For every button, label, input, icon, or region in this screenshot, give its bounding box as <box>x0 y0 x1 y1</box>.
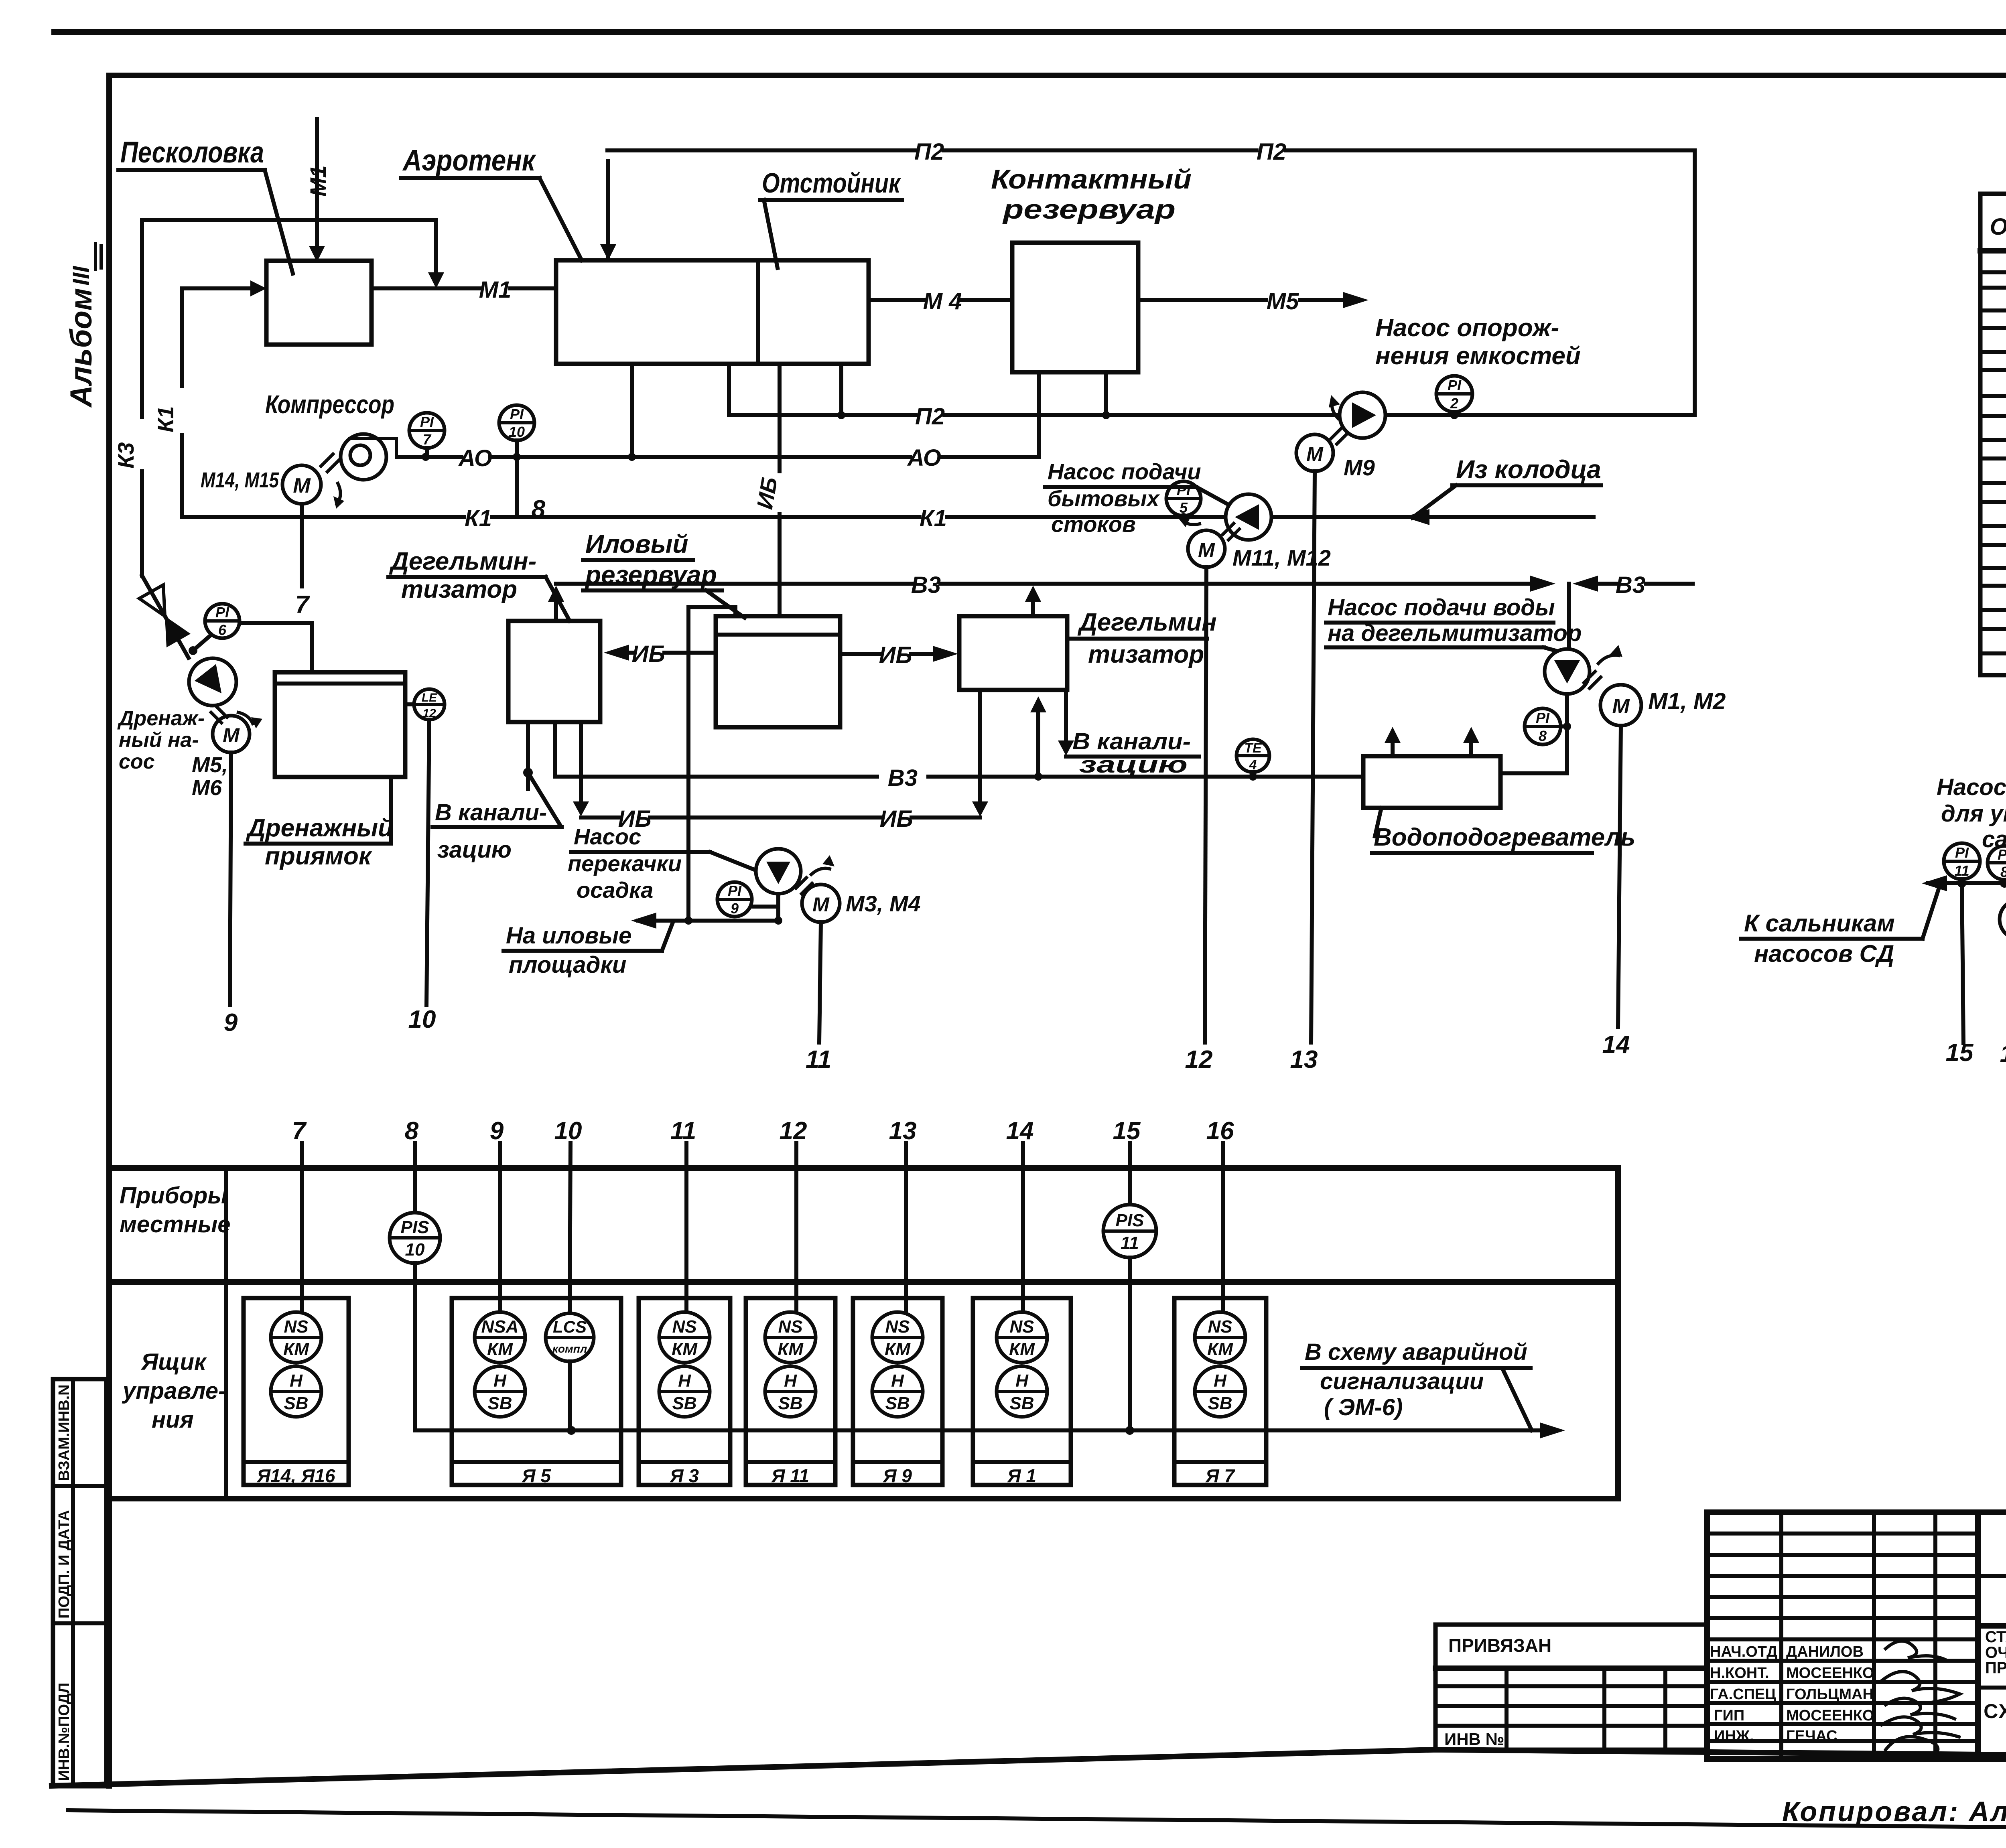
svg-text:9: 9 <box>731 900 739 917</box>
svg-text:АО: АО <box>907 445 941 471</box>
svg-text:Насос подачи воды: Насос подачи воды <box>1328 594 1555 621</box>
svg-text:М1: М1 <box>305 165 331 197</box>
drainage sump box (Дренажный приямок) <box>275 672 405 777</box>
legend row ИБ <box>1982 471 2006 496</box>
wire В3 arrow up from deworm tank 2 <box>1025 586 1041 616</box>
control box Я14,Я16 <box>244 1298 349 1486</box>
label Иловый резервуар <box>583 529 745 618</box>
control box Я5 <box>452 1298 621 1486</box>
svg-text:М1: М1 <box>479 277 512 303</box>
svg-text:компл: компл <box>552 1343 587 1355</box>
wire А1 air drop to aerotank <box>630 364 634 457</box>
instrument ТЕ-4 <box>1236 739 1269 781</box>
note В схему аварийной сигнализации (ЭМ-6) <box>1302 1339 1532 1430</box>
svg-text:КМ: КМ <box>1009 1339 1035 1359</box>
title block texts <box>1984 1533 2006 1757</box>
svg-text:КМ: КМ <box>487 1339 513 1359</box>
svg-text:КМ: КМ <box>778 1339 804 1359</box>
svg-text:М5: М5 <box>1267 288 1299 314</box>
svg-text:6: 6 <box>218 622 227 638</box>
band drop line 13 <box>889 1117 917 1312</box>
svg-text:8: 8 <box>2000 864 2006 880</box>
instrument PI-9 <box>717 882 778 917</box>
svg-text:Аэротенк: Аэротенк <box>402 144 536 177</box>
svg-text:12: 12 <box>780 1117 807 1145</box>
wire П2 collector under settler <box>729 364 1695 430</box>
control box Я7 <box>1174 1298 1266 1486</box>
привязан table <box>1435 1625 1707 1750</box>
label Дегельмин тизатор 2 <box>1067 609 1217 668</box>
label Насос перекачки осадка <box>568 824 758 903</box>
svg-text:SB: SB <box>284 1394 308 1413</box>
svg-text:III: III <box>68 266 94 286</box>
wire М4 settler to contact tank <box>869 288 1012 314</box>
svg-text:Дегельмин-: Дегельмин- <box>389 548 536 575</box>
svg-text:М: М <box>812 893 830 916</box>
sheet outer top edge line <box>54 29 2006 35</box>
svg-text:SB: SB <box>672 1394 696 1413</box>
svg-text:В3: В3 <box>888 765 918 791</box>
svg-text:сос: сос <box>119 750 155 773</box>
svg-text:SB: SB <box>1208 1394 1232 1413</box>
label Насос подачи бытовых стоков <box>1045 459 1228 537</box>
svg-text:Н: Н <box>493 1371 507 1391</box>
svg-text:КМ: КМ <box>1207 1339 1233 1359</box>
control box Я3 <box>639 1298 730 1486</box>
svg-text:8: 8 <box>1539 728 1547 744</box>
compressor unit М14 М15 <box>282 434 396 509</box>
svg-text:ПРИВЯЗАН: ПРИВЯЗАН <box>1448 1635 1551 1656</box>
svg-text:ИНВ №: ИНВ № <box>1444 1730 1504 1749</box>
sheet outer bottom edge line <box>68 1810 2006 1832</box>
svg-text:7: 7 <box>292 1117 307 1145</box>
band drop line 11 <box>670 1117 696 1312</box>
svg-text:П2: П2 <box>914 139 944 165</box>
svg-text:Дегельмин: Дегельмин <box>1077 609 1217 636</box>
svg-text:Контактный: Контактный <box>991 164 1192 195</box>
instrument PI-2 <box>1436 376 1472 419</box>
svg-text:Я 9: Я 9 <box>883 1465 912 1486</box>
wire К3 left riser <box>113 220 189 658</box>
wire 15 drop <box>1946 883 1974 1067</box>
svg-text:Иловый: Иловый <box>585 529 688 558</box>
wire 12 drop <box>1185 567 1213 1073</box>
svg-text:PIS: PIS <box>1116 1211 1144 1230</box>
svg-text:местные: местные <box>120 1211 231 1237</box>
wire В3 feed up into deworm tank 2 bottom <box>1030 696 1046 777</box>
svg-text:Я 1: Я 1 <box>1007 1465 1036 1486</box>
band drop line 12 <box>780 1117 807 1312</box>
wire pump discharge to water heater <box>1500 694 1567 773</box>
label В канализацию left <box>432 799 562 863</box>
control box Я1 <box>973 1298 1071 1486</box>
sludge reservoir box (Иловый резервуар) <box>716 616 840 727</box>
band drop line 15 with PIS-11 <box>1103 1117 1156 1430</box>
legend table "Условные обозначения" <box>1980 135 2006 675</box>
svg-text:11: 11 <box>1954 862 1969 879</box>
svg-text:управле-: управле- <box>122 1378 226 1404</box>
svg-text:Н: Н <box>678 1371 691 1391</box>
wire 16 drop <box>2000 939 2006 1068</box>
svg-text:11: 11 <box>806 1046 831 1073</box>
svg-text:перекачки: перекачки <box>568 851 682 876</box>
svg-text:стоков: стоков <box>1051 511 1136 537</box>
legend row K1 <box>1982 384 2006 409</box>
label М5 М6 <box>192 753 228 800</box>
instrument PI-6 <box>189 604 240 655</box>
svg-text:ИНВ.№ПОДЛ: ИНВ.№ПОДЛ <box>56 1683 73 1781</box>
wire 14 drop <box>1602 726 1630 1059</box>
svg-text:9: 9 <box>224 1009 238 1037</box>
title block grid <box>1707 1512 2006 1759</box>
svg-text:Н: Н <box>1214 1371 1227 1391</box>
svg-text:сигнализации: сигнализации <box>1320 1368 1484 1394</box>
aeration tank / settler box (Аэротенк + Отстойник) <box>556 260 869 364</box>
svg-text:10: 10 <box>408 1006 436 1033</box>
svg-text:Я 11: Я 11 <box>771 1465 809 1486</box>
frame bottom border <box>52 1750 2006 1786</box>
instrument PI-8 seal water <box>1988 846 2006 880</box>
svg-text:К3: К3 <box>113 442 138 469</box>
svg-text:М9: М9 <box>1344 455 1375 480</box>
legend row K3 <box>1982 428 2006 453</box>
svg-text:ный на-: ный на- <box>119 728 199 752</box>
wire М1 sandtrap to aerotank <box>372 277 556 303</box>
album side label "Альбом III" <box>64 244 101 408</box>
svg-text:PI: PI <box>1536 710 1550 726</box>
wire discharge to sludge beds <box>631 913 782 929</box>
wire 10 drop <box>408 720 436 1033</box>
svg-text:SB: SB <box>885 1394 910 1413</box>
svg-text:11: 11 <box>1121 1233 1139 1253</box>
svg-text:PIS: PIS <box>401 1217 429 1237</box>
alarm signal line to ЭМ-6 <box>415 1422 1565 1438</box>
svg-text:ГЕЧАС: ГЕЧАС <box>1786 1728 1837 1745</box>
label Дренажный приямок <box>246 777 393 870</box>
svg-text:7: 7 <box>423 431 432 448</box>
svg-text:насосов СД: насосов СД <box>1754 940 1894 967</box>
svg-text:ДАНИЛОВ: ДАНИЛОВ <box>1786 1643 1864 1660</box>
svg-text:ПОДП. И ДАТА: ПОДП. И ДАТА <box>56 1510 73 1619</box>
svg-text:М 4: М 4 <box>923 288 962 314</box>
svg-text:LCS: LCS <box>553 1317 587 1336</box>
title block signature rows <box>1710 1641 1960 1760</box>
svg-text:В3: В3 <box>911 572 941 598</box>
svg-text:Из колодца: Из колодца <box>1456 455 1601 484</box>
svg-text:10: 10 <box>509 424 525 440</box>
svg-text:Дренажный: Дренажный <box>246 814 393 842</box>
band drop line 7 <box>292 1117 307 1312</box>
svg-text:резервуар: резервуар <box>1002 194 1176 225</box>
svg-text:зацию: зацию <box>437 837 512 863</box>
pump М11 М12 on К1 <box>1178 494 1271 567</box>
svg-text:МОСЕЕНКО: МОСЕЕНКО <box>1786 1707 1874 1724</box>
svg-text:М14, М15: М14, М15 <box>201 468 279 492</box>
svg-text:П2: П2 <box>1257 139 1286 165</box>
signatures scribble <box>1886 1641 1946 1660</box>
svg-text:NSA: NSA <box>481 1317 519 1337</box>
svg-text:10: 10 <box>405 1240 425 1260</box>
svg-text:2: 2 <box>1450 395 1458 412</box>
svg-text:Н: Н <box>290 1371 303 1391</box>
svg-text:Насос подачи: Насос подачи <box>1048 459 1201 484</box>
svg-text:ИБ: ИБ <box>880 806 913 832</box>
svg-text:нения емкостей: нения емкостей <box>1375 342 1581 370</box>
label Насос подачи воды на дегельмитизатор <box>1326 594 1582 654</box>
wire М1 inlet from top <box>305 119 331 262</box>
svg-text:ГИП: ГИП <box>1714 1707 1744 1724</box>
wire suction from sump <box>240 623 312 672</box>
svg-text:Компрессор: Компрессор <box>265 390 394 419</box>
svg-text:Н.КОНТ.: Н.КОНТ. <box>1710 1665 1769 1682</box>
wire sludge suction from reservoir top <box>688 607 735 921</box>
wire ИБ drop from settler <box>752 364 782 616</box>
band drop line 16 <box>1206 1117 1234 1312</box>
label Аэротенк <box>401 144 582 260</box>
svg-text:Песколовка: Песколовка <box>120 136 264 169</box>
svg-text:ПРОИЗВОДИТЕЛЬНОСТЬЮ: ПРОИЗВОДИТЕЛЬНОСТЬЮ <box>1985 1659 2006 1677</box>
svg-text:М1, М2: М1, М2 <box>1648 688 1726 714</box>
svg-text:Я 3: Я 3 <box>670 1465 699 1486</box>
svg-text:( ЭМ-6): ( ЭМ-6) <box>1324 1394 1403 1420</box>
svg-text:для уплотнения: для уплотнения <box>1941 801 2006 827</box>
svg-text:на дегельмитизатор: на дегельмитизатор <box>1328 620 1582 646</box>
instrument PI-8 <box>1525 708 1571 744</box>
svg-text:М: М <box>1612 695 1630 718</box>
svg-text:ния: ния <box>152 1407 194 1433</box>
wire ИБ sludge reservoir to deworm tank 1 <box>604 641 716 667</box>
svg-text:К1: К1 <box>920 505 947 531</box>
wire В3 arrow up into deworm tank 1 <box>548 586 564 621</box>
legend row M5 <box>1982 340 2006 365</box>
svg-text:На иловые: На иловые <box>506 923 631 949</box>
legend row П2 <box>1982 514 2006 540</box>
legend row M4 <box>1982 298 2006 324</box>
label Насос подачи воды для уплотнения сальников <box>1937 774 2006 852</box>
svg-text:Копировал: Алешикова: Копировал: Алешикова <box>1782 1796 2006 1827</box>
svg-text:М: М <box>1198 539 1215 561</box>
svg-text:SB: SB <box>487 1394 512 1413</box>
svg-text:Приборы: Приборы <box>120 1183 227 1209</box>
svg-text:Насос: Насос <box>574 824 641 849</box>
svg-text:PI: PI <box>728 882 742 899</box>
svg-text:PI: PI <box>1955 844 1969 861</box>
svg-text:14: 14 <box>1006 1117 1034 1145</box>
svg-text:14: 14 <box>1602 1031 1630 1059</box>
legend row А1 <box>1982 598 2006 623</box>
bottom band borders <box>109 1168 1618 1499</box>
control box Я9 <box>853 1298 942 1486</box>
water heater box (Водоподогреватель) <box>1363 727 1500 808</box>
legend row В3 <box>1982 556 2006 581</box>
label В канализацию right <box>1066 728 1199 778</box>
svg-text:М3, М4: М3, М4 <box>846 891 921 916</box>
svg-text:В канали-: В канали- <box>1072 728 1191 755</box>
svg-text:АО: АО <box>458 445 492 471</box>
drainage pump unit М5 М6 <box>139 585 262 753</box>
label Водоподогреватель <box>1372 808 1635 853</box>
svg-text:ИБ: ИБ <box>879 642 912 668</box>
label На иловые площадки <box>504 921 673 978</box>
svg-text:SB: SB <box>778 1394 802 1413</box>
svg-text:Н: Н <box>891 1371 904 1391</box>
wire В3 lower main <box>555 722 1363 791</box>
svg-text:ГА.СПЕЦ: ГА.СПЕЦ <box>1710 1686 1776 1703</box>
svg-text:Обозн: Обозн <box>1990 214 2006 240</box>
svg-text:В3: В3 <box>1616 572 1645 598</box>
svg-text:16: 16 <box>1206 1117 1234 1145</box>
svg-text:М6: М6 <box>192 776 222 800</box>
svg-text:М: М <box>223 724 240 747</box>
instrument PI-11 <box>1944 843 1980 879</box>
svg-text:МОСЕЕНКО: МОСЕЕНКО <box>1786 1665 1874 1682</box>
svg-text:13: 13 <box>1290 1046 1318 1073</box>
wire ИБ sludge reservoir to deworm tank 2 <box>840 642 958 668</box>
svg-text:бытовых: бытовых <box>1048 486 1160 511</box>
svg-text:Ящик: Ящик <box>140 1349 207 1375</box>
label Дренажный насос <box>117 707 205 773</box>
svg-text:11: 11 <box>670 1117 696 1145</box>
instrument PI-7 <box>409 413 445 457</box>
label Из колодца <box>1412 455 1601 518</box>
svg-text:СТАНЦИЯ БИОЛОГИЧЕСКОЙ: СТАНЦИЯ БИОЛОГИЧЕСКОЙ <box>1985 1627 2006 1646</box>
svg-text:К1: К1 <box>465 505 492 531</box>
svg-text:15: 15 <box>1113 1117 1141 1145</box>
svg-text:NS: NS <box>672 1317 696 1337</box>
svg-text:площадки: площадки <box>509 952 626 978</box>
label Насос опорожнения емкостей <box>1375 314 1581 370</box>
svg-text:тизатор: тизатор <box>1088 641 1204 668</box>
control box Я11 <box>746 1298 835 1486</box>
svg-text:8: 8 <box>405 1117 419 1145</box>
svg-text:осадка: осадка <box>577 877 653 903</box>
pump М9 on П2 <box>1296 392 1385 471</box>
svg-text:10: 10 <box>554 1117 582 1145</box>
svg-text:ТЕ: ТЕ <box>1244 740 1262 756</box>
svg-text:зацию: зацию <box>1079 752 1188 778</box>
svg-text:М: М <box>293 474 311 497</box>
wire deworm tank 1 drain with dot <box>523 722 561 826</box>
svg-text:Отстойник: Отстойник <box>762 167 901 199</box>
svg-text:PI: PI <box>1998 846 2006 863</box>
svg-text:PI: PI <box>1448 377 1462 394</box>
svg-text:Насос опорож-: Насос опорож- <box>1375 314 1559 342</box>
wire contact tank drains <box>1039 372 1106 457</box>
svg-text:ГОЛЬЦМАН: ГОЛЬЦМАН <box>1786 1686 1874 1703</box>
svg-text:7: 7 <box>295 591 310 619</box>
deworming tank 2 box (Дегельминтизатор) <box>959 616 1067 690</box>
svg-text:12: 12 <box>1185 1046 1213 1073</box>
valve on К3 slant <box>139 585 165 616</box>
contact reservoir box (Контактный резервуар) <box>1012 243 1138 372</box>
label Дегельмин-тизатор 1 <box>388 548 570 621</box>
pump подачи воды М1 М2 <box>1545 584 1641 726</box>
svg-text:П2: П2 <box>915 404 945 430</box>
band drop line 10 through LCS <box>554 1117 582 1430</box>
svg-text:LE: LE <box>422 691 437 704</box>
svg-text:СХЕМА АВТОМАТИЗАЦИИ: СХЕМА АВТОМАТИЗАЦИИ <box>1984 1700 2006 1722</box>
svg-text:НАЧ.ОТД: НАЧ.ОТД <box>1710 1643 1777 1660</box>
legend row M1 <box>1982 260 2006 286</box>
wire ИБ lower line to pump <box>581 806 980 832</box>
svg-text:К сальникам: К сальникам <box>1744 910 1895 937</box>
seal water pump М7 М8 <box>1922 860 2006 939</box>
svg-text:КМ: КМ <box>672 1339 698 1359</box>
deworming tank 1 box (Дегельминтизатор) <box>508 621 600 722</box>
svg-text:15: 15 <box>1946 1039 1974 1067</box>
svg-text:9: 9 <box>490 1117 504 1145</box>
svg-text:Водоподогреватель: Водоподогреватель <box>1374 824 1635 851</box>
label Отстойник <box>760 167 902 268</box>
sand trap box (Песколовка) <box>266 261 372 345</box>
svg-text:приямок: приямок <box>265 842 372 870</box>
label Песколовка <box>118 136 293 274</box>
band drop line 14 <box>1006 1117 1034 1312</box>
wire В3 upper main <box>556 572 1693 598</box>
svg-text:М: М <box>1306 443 1324 465</box>
wire deworm tank 2 drain to sewer <box>1058 690 1074 756</box>
svg-text:КМ: КМ <box>885 1339 911 1359</box>
svg-text:13: 13 <box>889 1117 917 1145</box>
svg-text:SB: SB <box>1009 1394 1034 1413</box>
svg-text:Я 5: Я 5 <box>522 1465 551 1486</box>
svg-text:16: 16 <box>2000 1040 2006 1068</box>
left margin stamp column boxes <box>53 1379 106 1786</box>
svg-text:PI: PI <box>1177 482 1191 498</box>
label К сальникам насосов СД <box>1741 884 1940 967</box>
svg-text:NS: NS <box>778 1317 802 1337</box>
wire М5 outlet <box>1138 288 1368 314</box>
svg-text:Н: Н <box>1015 1371 1029 1391</box>
svg-text:Я14, Я16: Я14, Я16 <box>257 1465 335 1486</box>
wire К1 main <box>182 505 1594 531</box>
wire 13 drop <box>1290 471 1318 1073</box>
svg-text:ИНЖ.: ИНЖ. <box>1714 1728 1754 1745</box>
svg-text:NS: NS <box>284 1317 308 1337</box>
svg-text:PI: PI <box>215 604 229 621</box>
wire ИБ drop from deworm tank 2 <box>972 690 988 817</box>
svg-text:Н: Н <box>784 1371 797 1391</box>
svg-text:Альбом: Альбом <box>64 288 98 408</box>
wire 11 drop <box>806 922 831 1073</box>
svg-text:Насос подачи воды: Насос подачи воды <box>1937 774 2006 800</box>
svg-text:В схему аварийной: В схему аварийной <box>1305 1339 1527 1365</box>
svg-text:ИБ: ИБ <box>632 641 665 667</box>
label Контактный резервуар <box>991 164 1192 225</box>
band drop line 9 <box>490 1117 504 1312</box>
band drop line 8 with PIS-10 <box>390 1117 440 1430</box>
wire 7 from compressor motor <box>295 504 310 619</box>
svg-text:М5,: М5, <box>192 753 228 777</box>
svg-text:ВЗАМ.ИНВ.N: ВЗАМ.ИНВ.N <box>56 1384 73 1481</box>
wire М1 into sand trap <box>182 280 266 296</box>
wire АО air main <box>397 445 1039 471</box>
svg-text:КМ: КМ <box>283 1339 309 1359</box>
svg-text:К1: К1 <box>153 406 178 432</box>
svg-text:Я 7: Я 7 <box>1205 1465 1235 1486</box>
svg-text:PI: PI <box>420 414 434 430</box>
wire П2 top loop <box>600 139 1695 415</box>
svg-text:тизатор: тизатор <box>401 576 517 603</box>
legend row А2 <box>1982 641 2006 667</box>
wire ИБ deworm1 down to sludge line <box>573 722 589 816</box>
svg-text:NS: NS <box>1208 1317 1232 1337</box>
svg-text:NS: NS <box>885 1317 910 1337</box>
instrument PI-10 with line 8 <box>499 405 546 523</box>
wire К1 riser <box>153 288 182 517</box>
wire К3 inflow top <box>142 220 444 288</box>
svg-text:Дренаж-: Дренаж- <box>117 707 205 730</box>
